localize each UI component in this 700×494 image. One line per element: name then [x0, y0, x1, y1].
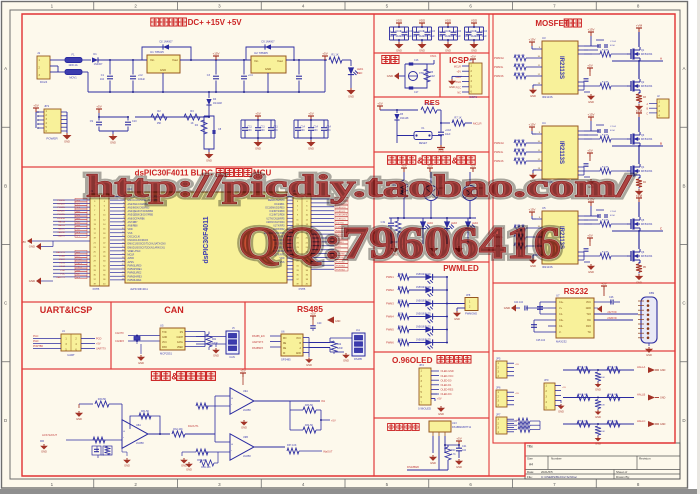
svg-text:+C4: +C4: [248, 74, 253, 77]
svg-text:EMUD1/SOSCI/T2CK/U1ARX/CN1: EMUD1/SOSCI/T2CK/U1ARX/CN1: [128, 246, 166, 249]
svg-text:RES-10R: RES-10R: [515, 55, 525, 57]
svg-text:U9B: U9B: [243, 436, 248, 439]
svg-text:JP8: JP8: [466, 294, 471, 297]
svg-text:U13: U13: [452, 422, 457, 425]
svg-text:104: 104: [301, 129, 306, 132]
svg-text:C: C: [660, 227, 662, 231]
svg-text:U4: U4: [542, 121, 546, 125]
svg-text:PGD: PGD: [60, 270, 65, 272]
svg-text:10M: 10M: [430, 75, 435, 78]
svg-text:UART2TX: UART2TX: [252, 341, 264, 344]
svg-text:Vin: Vin: [254, 59, 259, 63]
svg-text:VREF: VREF: [177, 347, 184, 349]
svg-text:CANTX: CANTX: [115, 331, 124, 335]
svg-text:+VM: +VM: [636, 24, 643, 28]
svg-text:HALLA: HALLA: [637, 365, 645, 369]
svg-text:PWM3L: PWM3L: [57, 214, 66, 216]
svg-text:D3 1N4007: D3 1N4007: [261, 40, 275, 44]
svg-text:HALLB: HALLB: [637, 393, 645, 397]
svg-text:CANH: CANH: [176, 336, 183, 339]
svg-text:OSC1: OSC1: [430, 55, 437, 58]
svg-text:GND: GND: [646, 353, 652, 357]
svg-text:GND: GND: [586, 307, 592, 310]
svg-text:RES-10R: RES-10R: [515, 149, 525, 151]
svg-text:Vout: Vout: [277, 59, 283, 63]
svg-text:+5V: +5V: [515, 364, 519, 366]
svg-text:7: 7: [123, 217, 124, 219]
svg-text:R20: R20: [451, 449, 456, 452]
svg-text:GND: GND: [186, 468, 192, 472]
svg-text:IR2113S: IR2113S: [542, 95, 553, 99]
svg-text:R36-10K: R36-10K: [201, 466, 211, 469]
svg-text:AVSS: AVSS: [128, 261, 135, 264]
svg-text:GND: GND: [660, 423, 666, 426]
svg-text:1N4148: 1N4148: [400, 117, 409, 120]
svg-text:+: +: [231, 443, 233, 447]
svg-text:JP4: JP4: [419, 363, 424, 367]
svg-text:VDD: VDD: [396, 19, 403, 23]
svg-text:GND: GND: [110, 141, 116, 145]
svg-text:VCC: VCC: [162, 342, 167, 344]
svg-text:DAOUT1: DAOUT1: [188, 424, 199, 428]
svg-text:DAOUT1: DAOUT1: [56, 251, 66, 254]
svg-text:RES-10R: RES-10R: [515, 140, 525, 142]
svg-text:104: 104: [314, 129, 319, 132]
svg-text:R37-10K: R37-10K: [287, 444, 297, 447]
svg-text:VSS: VSS: [128, 232, 133, 235]
svg-text:PGD: PGD: [33, 340, 39, 343]
svg-text:U6: U6: [281, 330, 285, 334]
svg-text:23: 23: [122, 275, 124, 277]
svg-text:RES-10K: RES-10K: [608, 367, 618, 369]
svg-text:20: 20: [122, 264, 124, 266]
svg-text:Sheet of: Sheet of: [616, 470, 627, 474]
svg-text:PWM2H/RE3: PWM2H/RE3: [128, 275, 143, 278]
svg-text:HALLB: HALLB: [58, 224, 65, 227]
svg-text:PORTB0: PORTB0: [33, 345, 44, 348]
svg-text:OSC2: OSC2: [59, 266, 66, 268]
svg-text:C16: C16: [414, 59, 419, 62]
svg-text:U5: U5: [542, 206, 546, 210]
svg-text:PWM1H: PWM1H: [57, 204, 66, 206]
svg-text:GND: GND: [308, 147, 314, 151]
svg-text:5: 5: [123, 210, 124, 212]
svg-text:+: +: [231, 397, 233, 401]
svg-text:D2 1N4007: D2 1N4007: [159, 40, 173, 44]
svg-text:RESET: RESET: [419, 142, 428, 145]
svg-text:GND: GND: [29, 279, 35, 283]
svg-text:47uF: 47uF: [610, 45, 616, 47]
svg-text:10uF: 10uF: [445, 133, 451, 136]
svg-text:4: 4: [123, 206, 124, 208]
svg-text:+15V: +15V: [587, 28, 594, 32]
svg-text:GND: GND: [558, 409, 564, 413]
svg-text:104: 104: [100, 78, 105, 81]
svg-text:GND: GND: [306, 363, 312, 367]
svg-text:GND: GND: [430, 461, 436, 465]
svg-text:GND: GND: [419, 49, 425, 53]
svg-text:AN8/RB8: AN8/RB8: [128, 225, 139, 228]
svg-text:DE: DE: [283, 348, 287, 350]
svg-text:GND: GND: [438, 150, 444, 154]
svg-text:C21: C21: [462, 445, 467, 448]
svg-text:Date:: Date:: [527, 470, 534, 474]
svg-text:+5V: +5V: [587, 234, 592, 238]
svg-text:+5V: +5V: [255, 112, 260, 116]
svg-text:C104: C104: [456, 31, 462, 33]
svg-text:Title: Title: [527, 445, 533, 449]
svg-text:11: 11: [122, 232, 124, 234]
svg-text:RES-10R: RES-10R: [515, 73, 525, 75]
svg-text:IRF540NS: IRF540NS: [641, 170, 653, 173]
svg-text:GND: GND: [335, 320, 341, 323]
svg-text:R1 1K: R1 1K: [331, 53, 338, 57]
svg-text:C 104: C 104: [610, 211, 617, 213]
svg-text:AN3/INDX/CN5/RB3: AN3/INDX/CN5/RB3: [128, 206, 150, 209]
svg-text:GND: GND: [595, 442, 601, 446]
svg-text:C104: C104: [482, 31, 488, 33]
svg-text:GND: GND: [438, 412, 444, 416]
svg-text:NC: NC: [457, 92, 461, 95]
svg-text:PWM2H: PWM2H: [57, 211, 66, 213]
svg-text:OLED-D1: OLED-D1: [441, 384, 452, 387]
svg-text:RES-10K: RES-10K: [608, 421, 618, 423]
svg-text:CANRX: CANRX: [57, 231, 65, 234]
svg-text:AN7/RB7: AN7/RB7: [128, 221, 139, 224]
svg-text:GND: GND: [660, 397, 666, 400]
svg-text:UARTTX: UARTTX: [96, 348, 106, 351]
svg-text:OSC1/CLKI: OSC1/CLKI: [128, 235, 141, 238]
svg-text:232TXD: 232TXD: [607, 311, 616, 314]
svg-text:PGC: PGC: [33, 335, 39, 338]
svg-text:MCLR: MCLR: [59, 259, 66, 261]
svg-text:10K: 10K: [601, 405, 605, 407]
svg-text:0.96OLED: 0.96OLED: [418, 407, 431, 411]
svg-text:+5V: +5V: [240, 369, 245, 373]
svg-text:PWM2L/RE2: PWM2L/RE2: [128, 272, 142, 275]
svg-text:RES-10K: RES-10K: [578, 421, 588, 423]
svg-text:MCLR: MCLR: [454, 66, 461, 69]
svg-text:IRF540NS: IRF540NS: [641, 85, 653, 88]
svg-text:MAX232: MAX232: [556, 340, 567, 344]
svg-text:PORTB4: PORTB4: [336, 269, 345, 271]
svg-text:104: 104: [327, 129, 332, 132]
svg-text:OLED-RES: OLED-RES: [441, 389, 454, 392]
svg-text:RES-10R: RES-10R: [515, 64, 525, 66]
svg-text:PWM3H: PWM3H: [494, 56, 504, 60]
svg-text:+5V: +5V: [562, 387, 566, 389]
svg-text:File:: File:: [527, 475, 533, 479]
svg-text:Vin: Vin: [150, 58, 155, 62]
svg-text:GND: GND: [471, 49, 477, 53]
svg-text:+5V: +5V: [96, 343, 101, 346]
svg-text:DC+ +15V +5V: DC+ +15V +5V: [188, 18, 243, 27]
svg-text:OLED-DC: OLED-DC: [441, 393, 452, 396]
svg-text:GND: GND: [241, 426, 247, 430]
svg-text:PWM3: PWM3: [386, 302, 394, 306]
svg-text:VDD: VDD: [445, 19, 452, 23]
svg-text:U3: U3: [542, 36, 546, 40]
svg-text:C17: C17: [414, 91, 419, 94]
svg-text:PWM4S: PWM4S: [494, 159, 504, 163]
svg-text:IR2113S: IR2113S: [558, 56, 564, 79]
svg-text:DS18B20: DS18B20: [407, 465, 419, 469]
svg-text:U1 78M15: U1 78M15: [150, 50, 164, 54]
svg-text:IC1/INT1/RD8: IC1/INT1/RD8: [269, 214, 285, 217]
svg-text:GND: GND: [348, 95, 354, 99]
svg-text:10uF: 10uF: [430, 36, 436, 38]
svg-text:R2: R2: [157, 109, 161, 113]
svg-text:+5V: +5V: [310, 312, 315, 316]
svg-text:OSC1: OSC1: [59, 263, 66, 265]
svg-text:+5V: +5V: [377, 102, 382, 106]
svg-text:R3: R3: [190, 109, 194, 113]
svg-text:21: 21: [122, 268, 124, 270]
svg-text:R1I: R1I: [587, 319, 591, 322]
svg-text:R34-5K: R34-5K: [305, 424, 314, 427]
svg-text:R33-5K: R33-5K: [305, 404, 314, 407]
svg-text:PGC: PGC: [456, 86, 462, 89]
svg-text:+C18: +C18: [445, 129, 451, 132]
svg-text:QQ:79606416: QQ:79606416: [238, 218, 561, 268]
svg-text:GND: GND: [29, 245, 35, 249]
svg-text:LM358: LM358: [136, 442, 144, 445]
svg-text:AVDD: AVDD: [128, 257, 135, 260]
svg-text:C1-: C1-: [559, 313, 563, 316]
svg-text:GND: GND: [162, 337, 167, 339]
svg-text:POWER: POWER: [46, 137, 58, 141]
svg-text:PWM1L: PWM1L: [57, 200, 66, 202]
svg-text:+C2: +C2: [138, 74, 143, 77]
svg-text:PWM3H: PWM3H: [57, 218, 66, 220]
svg-text:13: 13: [122, 239, 124, 241]
svg-text:+15V: +15V: [212, 52, 219, 56]
svg-text:U5: U5: [160, 324, 164, 328]
svg-text:12W-1A: 12W-1A: [68, 63, 78, 67]
svg-text:Revision: Revision: [639, 457, 651, 461]
svg-text:VCC: VCC: [296, 338, 301, 340]
svg-text:U9A: U9A: [243, 390, 248, 393]
svg-text:GND: GND: [387, 74, 393, 78]
svg-text:9: 9: [123, 224, 124, 226]
svg-text:OC1/EMUD2/RD0: OC1/EMUD2/RD0: [265, 206, 285, 209]
svg-text:22: 22: [122, 271, 124, 273]
svg-text:120R: 120R: [337, 348, 343, 350]
svg-text:R 10R: R 10R: [602, 82, 609, 84]
svg-text:15: 15: [122, 246, 124, 248]
svg-text:PWM1: PWM1: [386, 275, 394, 279]
svg-text:JP6: JP6: [496, 386, 501, 390]
svg-text:T1O: T1O: [586, 313, 591, 316]
svg-text:GND: GND: [504, 306, 510, 310]
svg-text:GND: GND: [265, 67, 271, 71]
svg-text:LM358: LM358: [243, 455, 251, 458]
svg-text:12: 12: [122, 235, 124, 237]
svg-text:PGD: PGD: [96, 338, 102, 341]
svg-text:47uF: 47uF: [610, 130, 616, 132]
svg-text:U2 78M05: U2 78M05: [254, 51, 268, 55]
svg-text:+5V: +5V: [437, 398, 442, 401]
svg-text:+5V: +5V: [587, 64, 592, 68]
svg-text:104: 104: [274, 129, 279, 132]
svg-text:+5V: +5V: [456, 437, 461, 441]
svg-text:PWM6: PWM6: [386, 341, 394, 345]
svg-text:104: 104: [261, 129, 266, 132]
svg-text:A: A: [660, 57, 662, 61]
svg-text:VDD: VDD: [471, 19, 478, 23]
svg-text:IRF540NS: IRF540NS: [641, 53, 653, 56]
svg-text:CAN: CAN: [229, 355, 235, 359]
svg-text:24: 24: [122, 279, 124, 281]
svg-text:OLED-D0: OLED-D0: [336, 207, 346, 209]
svg-text:PGC: PGC: [60, 273, 65, 275]
svg-text:+5V: +5V: [308, 112, 313, 116]
svg-text:JP1: JP1: [44, 104, 50, 108]
svg-text:RS: RS: [180, 332, 184, 334]
svg-text:IRF540NS: IRF540NS: [641, 255, 653, 258]
svg-text:A: A: [4, 66, 7, 71]
svg-text:DC24: DC24: [40, 80, 48, 84]
svg-text:DI: DI: [283, 353, 286, 355]
svg-text:R31-5K: R31-5K: [141, 410, 150, 413]
svg-text:R30-5K: R30-5K: [98, 398, 107, 401]
svg-text:+5V: +5V: [21, 240, 26, 244]
svg-text:DS18B20/DHT11: DS18B20/DHT11: [452, 426, 472, 429]
svg-text:HALLC: HALLC: [637, 419, 645, 423]
svg-text:OLED-RES: OLED-RES: [336, 215, 348, 217]
svg-text:17: 17: [122, 253, 124, 255]
svg-text:R32-10K: R32-10K: [173, 428, 183, 431]
svg-text:dsPIC30F4011: dsPIC30F4011: [130, 287, 148, 291]
svg-text:IC2/INT2/RD9: IC2/INT2/RD9: [269, 210, 285, 213]
svg-text:GND: GND: [296, 353, 301, 355]
svg-text:GND: GND: [454, 317, 460, 321]
svg-text:10uF: 10uF: [456, 36, 462, 38]
svg-text:6: 6: [123, 213, 124, 215]
svg-text:DB9: DB9: [649, 291, 655, 295]
svg-text:O.96OLED: O.96OLED: [392, 356, 433, 365]
svg-text:1N4007: 1N4007: [94, 63, 103, 66]
svg-text:CANRX: CANRX: [115, 339, 124, 343]
svg-text:C1+: C1+: [559, 301, 564, 304]
svg-text:W1AN: W1AN: [59, 255, 66, 258]
svg-text:+15V: +15V: [587, 113, 594, 117]
svg-text:GND: GND: [138, 361, 144, 365]
svg-text:P2TB: P2TB: [93, 287, 100, 291]
svg-text:JP7: JP7: [496, 413, 501, 417]
svg-text:C24 104: C24 104: [514, 301, 524, 304]
svg-text:GND: GND: [41, 450, 47, 454]
svg-text:http://picdiy.taobao.com/: http://picdiy.taobao.com/: [86, 168, 633, 204]
svg-text:+5V: +5V: [587, 149, 592, 153]
svg-text:D1: D1: [93, 52, 97, 56]
svg-text:JP5: JP5: [496, 357, 501, 361]
svg-text:HALLC: HALLC: [58, 227, 65, 230]
svg-text:+: +: [123, 430, 125, 434]
svg-text:PWM4H: PWM4H: [494, 141, 504, 145]
svg-text:GND: GND: [449, 85, 455, 89]
svg-text:PWM1L/RE0: PWM1L/RE0: [128, 264, 142, 267]
svg-text:AN6/OCFA/RB6: AN6/OCFA/RB6: [128, 217, 146, 220]
svg-text:U7: U7: [556, 294, 560, 298]
svg-text:AN5/QEB/IC8/CN7/RB5: AN5/QEB/IC8/CN7/RB5: [128, 214, 154, 217]
svg-text:18: 18: [122, 257, 124, 259]
svg-text:8: 8: [123, 221, 124, 223]
svg-text:IRF540NS: IRF540NS: [641, 138, 653, 141]
svg-text:T1I: T1I: [588, 331, 592, 334]
svg-text:P3TB: P3TB: [299, 287, 306, 291]
svg-text:INaOUT: INaOUT: [323, 450, 333, 454]
svg-text:A: A: [682, 66, 685, 71]
svg-text:GND: GND: [64, 140, 70, 144]
svg-text:JP9: JP9: [544, 378, 549, 382]
svg-text:PWM2: PWM2: [386, 288, 394, 292]
svg-text:PWM4L: PWM4L: [494, 150, 504, 154]
svg-text:GND: GND: [445, 49, 451, 53]
svg-text:VDD: VDD: [128, 228, 133, 231]
svg-text:GND: GND: [255, 147, 261, 151]
svg-text:ICSP1: ICSP1: [469, 95, 478, 99]
svg-text:100uF: 100uF: [138, 78, 146, 81]
svg-text:HALLA: HALLA: [58, 220, 65, 223]
svg-text:C 104: C 104: [610, 41, 617, 43]
svg-text:IRF540NS: IRF540NS: [641, 223, 653, 226]
svg-text:RO: RO: [283, 338, 287, 340]
svg-text:14: 14: [122, 242, 124, 244]
svg-text:OSC2/CLKO/RC15: OSC2/CLKO/RC15: [128, 239, 149, 242]
svg-text:+15V: +15V: [528, 38, 535, 42]
svg-text:MCP2551: MCP2551: [160, 352, 172, 356]
svg-text:PWM3L: PWM3L: [494, 65, 504, 69]
svg-text:C2+: C2+: [559, 319, 564, 322]
svg-text:PWM3L/RE4: PWM3L/RE4: [128, 279, 142, 282]
svg-text:LM358: LM358: [243, 409, 251, 412]
svg-text:ICSP: ICSP: [449, 55, 469, 65]
svg-text:GND: GND: [588, 100, 594, 104]
svg-text:19: 19: [122, 261, 124, 263]
svg-text:dsPIC30F4011: dsPIC30F4011: [203, 216, 210, 263]
svg-text:104: 104: [462, 449, 467, 452]
svg-text:MOV1: MOV1: [69, 76, 77, 80]
svg-text:GND: GND: [124, 464, 130, 468]
svg-text:C26: C26: [609, 296, 614, 299]
svg-text:R7 1K: R7 1K: [454, 116, 461, 120]
svg-text:R1O: R1O: [586, 325, 591, 328]
svg-text:+5V: +5V: [470, 55, 475, 59]
svg-text:16: 16: [122, 250, 124, 252]
svg-text:PWMGND: PWMGND: [465, 312, 477, 316]
svg-text:10K: 10K: [601, 431, 605, 433]
svg-text:47uF: 47uF: [610, 215, 616, 217]
svg-text:GND: GND: [456, 465, 462, 469]
svg-text:GND: GND: [160, 68, 166, 72]
svg-text:R 10R: R 10R: [602, 252, 609, 254]
svg-text:Vout: Vout: [172, 58, 178, 62]
svg-text:+15V: +15V: [528, 208, 535, 212]
svg-text:104: 104: [248, 129, 253, 132]
svg-text:RES-10K: RES-10K: [578, 394, 588, 396]
svg-text:1K: 1K: [190, 122, 193, 125]
svg-text:PWM3S: PWM3S: [494, 74, 504, 78]
svg-text:J1: J1: [37, 51, 41, 55]
svg-text:LED1: LED1: [357, 68, 364, 71]
svg-text:GND: GND: [530, 94, 536, 98]
svg-text:R21: R21: [212, 339, 217, 341]
svg-text:AN4/QEA/IC7/CN6/RB4: AN4/QEA/IC7/CN6/RB4: [128, 210, 154, 213]
svg-text:B: B: [4, 183, 7, 188]
svg-text:OLED-GND: OLED-GND: [441, 370, 454, 373]
svg-text:V-: V-: [559, 331, 561, 334]
